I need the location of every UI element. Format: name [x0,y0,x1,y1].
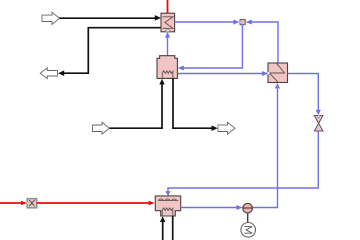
vessel V2 [155,196,180,216]
wire S11 valve VLV1 to vessel V2 top [165,131,318,196]
wire S2 heater HX1 to product arrow [58,28,161,76]
sink arrow PROD2 [218,122,235,134]
wire S1 feed to heater HX1 [59,15,161,21]
energy mixer M1 [27,199,37,208]
wire S6 vessel V1 top to heater HX1 bottom [165,32,170,56]
vessel V1 [157,56,177,79]
wire S3 heater HX1 to node N1 [175,20,240,25]
energy connector pump P1 to energy symbol [247,213,249,223]
wire S7 feed to vessel V1 bottom [109,79,164,128]
wire S5 node N1 to vessel V1 [178,25,243,71]
energy stream E2 from left edge [0,201,27,206]
wire S8 vessel V1 bottom to product arrow [173,78,218,131]
pump P1 [243,203,253,213]
wire S10 separator B1 to valve VLV1 [288,74,321,116]
wire S4 separator B1 top to node N1 [246,20,278,64]
energy stream E3 mixer M1 to vessel V2 [37,201,155,206]
wire S15 pump P1 to separator B1 bottom [252,83,280,208]
wire S14 vessel V2 to pump P1 [181,205,243,210]
source arrow FEED1 [42,12,59,24]
heater HX1 [161,13,175,32]
source arrow FEED2 [93,122,110,134]
wire S13 vessel V2 bottom outlet [172,216,174,240]
node N1 mixer [240,20,245,25]
valve VLV1 [314,115,323,131]
separator B1 [267,63,288,83]
wire S9 vessel V1 to separator B1 [177,71,268,76]
wire S12 feed to vessel V2 bottom [160,216,165,240]
sink arrow PROD1 [40,68,57,79]
energy stream E1 to heater HX1 top [167,0,169,13]
energy symbol EN1 [241,223,256,238]
